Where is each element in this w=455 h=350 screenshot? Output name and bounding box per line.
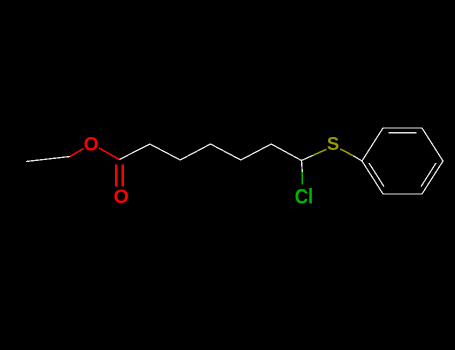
bond C7-Cl green half [301,172,303,185]
bond CH2-O (red half to ester O) [70,149,84,157]
ring double bond inner line (top edge) [389,132,417,134]
svg-text:O: O [84,134,99,155]
svg-text:O: O [114,186,129,208]
svg-text:Cl: Cl [295,185,313,208]
ring double bond inner line (lower-right edge) [421,163,436,187]
bond C7-Cl white half [301,161,304,173]
benzene ring outline [362,128,443,194]
double bond C1=O (carbonyl) [115,165,117,187]
bond S-C(ipso) olive half [340,149,353,156]
bond C7-S olive half [313,149,327,155]
chain C1-C2-C3-C4-C5-C6-C7 zigzag [120,144,302,161]
bond C7-S white half [302,155,314,160]
svg-text:S: S [327,133,339,154]
bond CH3-CH2 (ethyl) [26,157,70,162]
bond O-C1 (ester O to carbonyl C) [99,148,120,160]
ring double bond inner line (lower-left edge) [369,163,384,187]
bond S-C(ipso) white half [353,156,362,161]
